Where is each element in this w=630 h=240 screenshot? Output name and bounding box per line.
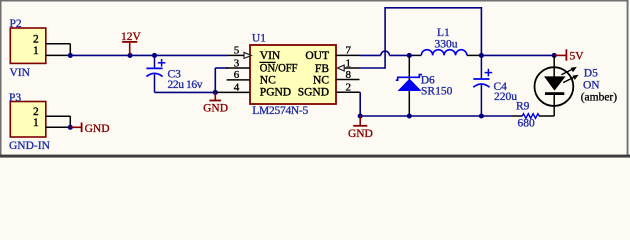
svg-text:1: 1 [33, 45, 39, 57]
pin 7 stub [336, 54, 360, 56]
svg-text:D5: D5 [584, 68, 598, 80]
svg-text:680: 680 [518, 117, 536, 129]
junction P3 output [68, 125, 73, 130]
svg-text:GND: GND [203, 102, 228, 114]
junction C4 bottom [479, 113, 484, 118]
LED D5 [535, 55, 579, 116]
wire FB feedback [360, 8, 483, 69]
wire output to 5V [481, 54, 554, 56]
junction 12V [127, 53, 132, 58]
pin 3 stub [227, 67, 250, 69]
svg-text:1: 1 [33, 117, 39, 129]
svg-text:NC: NC [313, 74, 329, 86]
svg-text:GND: GND [348, 128, 373, 140]
svg-text:R9: R9 [516, 100, 530, 112]
svg-text:12V: 12V [121, 31, 142, 43]
svg-text:VIN: VIN [260, 50, 281, 62]
capacitor C4 [473, 55, 492, 116]
svg-text:8: 8 [346, 69, 352, 81]
svg-text:330u: 330u [435, 38, 458, 50]
svg-text:ON/OFF: ON/OFF [260, 63, 298, 75]
svg-text:7: 7 [346, 45, 352, 57]
svg-text:2: 2 [33, 34, 39, 46]
svg-text:D6: D6 [421, 74, 435, 86]
svg-text:FB: FB [315, 63, 329, 75]
junction C3 top [152, 53, 157, 58]
wire P2 pin2 to pin1 [69, 44, 71, 56]
sheet border frame [0, 0, 630, 158]
pin 8 stub [336, 79, 360, 81]
svg-text:3: 3 [234, 57, 240, 69]
junction GND node left [213, 90, 218, 95]
pin 1 stub [343, 67, 360, 69]
wire C3 bottom to GND node [155, 91, 216, 93]
overline ON [259, 61, 275, 63]
svg-text:2: 2 [346, 82, 352, 94]
svg-text:P3: P3 [9, 92, 21, 104]
wire pin2 to ground rail [360, 92, 512, 116]
pin 2 stub [336, 91, 360, 93]
svg-text:P2: P2 [10, 18, 22, 30]
power ground GND (bottom) [348, 116, 373, 140]
svg-text:U1: U1 [252, 32, 266, 44]
pin 6 stub [227, 79, 250, 81]
svg-text:SGND: SGND [298, 86, 329, 98]
svg-text:1: 1 [346, 57, 352, 69]
wire VIN main [70, 54, 228, 56]
svg-text:SR150: SR150 [421, 86, 453, 98]
svg-text:OUT: OUT [305, 50, 329, 62]
power ground GND (at P3) [70, 123, 109, 135]
pin 5 input arrow [244, 52, 251, 58]
svg-text:L1: L1 [437, 27, 450, 39]
junction D6 top [407, 53, 412, 58]
power 5V [554, 49, 584, 62]
junction P2 output [68, 53, 73, 58]
svg-text:4: 4 [234, 82, 240, 94]
inductor L1 [413, 50, 479, 56]
svg-text:22u 16v: 22u 16v [168, 79, 203, 91]
resistor R9 [512, 114, 554, 119]
junction ground rail at GND [358, 113, 363, 118]
connector P3 [10, 102, 70, 138]
junction LED top [552, 53, 557, 58]
svg-text:5: 5 [234, 45, 240, 57]
svg-text:LM2574N-5: LM2574N-5 [252, 105, 308, 117]
pin 5 stub [228, 54, 244, 56]
capacitor C3 [146, 55, 165, 92]
svg-text:VIN: VIN [10, 67, 31, 79]
svg-text:6: 6 [234, 69, 240, 81]
IC U1 (LM2574N-5 regulator) body [250, 45, 336, 104]
svg-text:PGND: PGND [260, 86, 291, 98]
wire pin3 down to GND node [215, 68, 228, 92]
wire OUT with hop [360, 51, 414, 55]
svg-text:(amber): (amber) [581, 92, 618, 104]
connector P2 [10, 28, 70, 63]
svg-text:GND: GND [85, 123, 110, 135]
svg-text:GND-IN: GND-IN [9, 140, 51, 152]
svg-text:220u: 220u [494, 91, 517, 103]
svg-text:ON: ON [583, 79, 600, 91]
svg-text:5V: 5V [570, 51, 585, 63]
power 12V [121, 31, 142, 55]
pin 4 stub [216, 91, 250, 93]
svg-text:NC: NC [260, 74, 276, 86]
pin 1 input arrow [337, 65, 344, 71]
power ground GND (left) [203, 92, 228, 114]
diode D6 [396, 55, 422, 116]
junction output node [479, 53, 484, 58]
junction D6 bottom [407, 113, 412, 118]
